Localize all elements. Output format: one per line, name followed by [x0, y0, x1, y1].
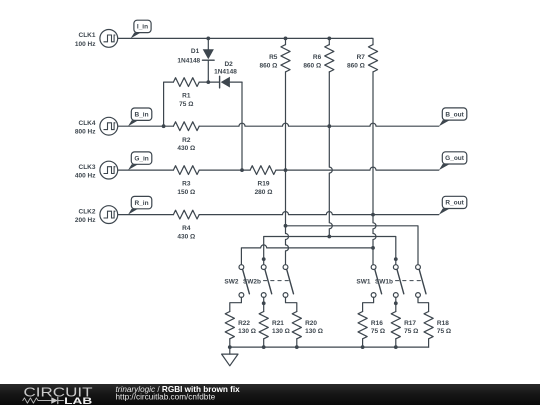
- svg-text:CLK3: CLK3: [79, 164, 96, 171]
- voltage source CLK2 (200 Hz square wave): [100, 206, 118, 224]
- resistor R20: [286, 297, 297, 311]
- svg-text:R1: R1: [182, 93, 191, 100]
- svg-text:130 Ω: 130 Ω: [272, 328, 290, 335]
- svg-text:SW2b: SW2b: [243, 279, 261, 286]
- svg-text:R20: R20: [305, 320, 317, 327]
- svg-text:75 Ω: 75 Ω: [404, 328, 418, 335]
- switch SW1 at x=373.6: [371, 265, 381, 298]
- svg-text:R19: R19: [258, 181, 270, 188]
- wire G row right segment (hop over column x=373): [276, 167, 439, 170]
- svg-text:130 Ω: 130 Ω: [238, 328, 256, 335]
- svg-text:R22: R22: [238, 320, 250, 327]
- wire loop left vertical (B_in node up): [164, 82, 174, 126]
- resistor R17: [395, 297, 397, 311]
- resistor R4 body: [173, 210, 199, 219]
- svg-text:130 Ω: 130 Ω: [305, 328, 323, 335]
- svg-text:SW2: SW2: [224, 279, 238, 286]
- svg-text:I_in: I_in: [137, 24, 148, 31]
- svg-text:400 Hz: 400 Hz: [75, 173, 96, 180]
- svg-text:75 Ω: 75 Ω: [371, 328, 385, 335]
- voltage source CLK3 (400 Hz square wave): [100, 161, 118, 179]
- svg-text:100 Hz: 100 Hz: [75, 41, 96, 48]
- svg-text:R6: R6: [313, 54, 322, 61]
- wire G row left segment: [118, 169, 174, 171]
- svg-text:G_in: G_in: [134, 155, 148, 162]
- net flag R_out: [439, 196, 467, 214]
- voltage source CLK4 (800 Hz square wave): [100, 117, 118, 135]
- wire R row left segment: [118, 214, 174, 216]
- svg-text:D2: D2: [224, 61, 233, 68]
- net flag G_in: [128, 152, 152, 170]
- switch SW1c at x=418.0: [416, 265, 426, 298]
- svg-text:R17: R17: [404, 320, 416, 327]
- svg-text:860 Ω: 860 Ω: [347, 63, 365, 70]
- wire G row mid segment: [199, 169, 250, 171]
- svg-text:430 Ω: 430 Ω: [177, 145, 195, 152]
- switch SW2b at x=263.7: [261, 265, 271, 298]
- switch SW2 at x=241.4: [239, 265, 249, 298]
- gang dashed line left: [264, 280, 290, 282]
- resistor R3 body: [173, 166, 199, 175]
- resistor R1 body: [173, 78, 199, 87]
- wire B (y=236.5) between middle switches: [264, 237, 396, 265]
- svg-text:R21: R21: [272, 320, 284, 327]
- svg-text:R5: R5: [269, 54, 278, 61]
- net flag G_out: [439, 152, 467, 170]
- svg-text:D1: D1: [191, 48, 200, 55]
- resistor R5 column (x=285.5): [285, 38, 287, 44]
- svg-text:280 Ω: 280 Ω: [255, 189, 273, 196]
- wire C (y=247.9) from left switch 1 to R7 column (hop over x=263.7): [241, 245, 373, 265]
- CircuitLab logo: [23, 385, 93, 406]
- svg-text:430 Ω: 430 Ω: [177, 233, 195, 240]
- resistor R21: [263, 297, 265, 311]
- wire node X horizontal: [199, 81, 219, 83]
- svg-text:200 Hz: 200 Hz: [75, 217, 96, 224]
- svg-text:75 Ω: 75 Ω: [437, 328, 451, 335]
- svg-text:800 Hz: 800 Hz: [75, 129, 96, 136]
- svg-text:SW1b: SW1b: [375, 279, 393, 286]
- resistor R22: [230, 297, 242, 311]
- svg-text:R3: R3: [182, 181, 191, 188]
- junction dots: [206, 37, 210, 41]
- voltage source CLK1 (100 Hz square wave): [100, 30, 118, 48]
- svg-text:R_in: R_in: [135, 200, 149, 207]
- wire A (y=225.8) from node at R5 column to right switch 3: [286, 226, 419, 265]
- wire I row (intensity net): [118, 37, 372, 39]
- resistor R18: [418, 297, 429, 311]
- svg-text:LAB: LAB: [64, 396, 93, 405]
- svg-text:CLK2: CLK2: [79, 208, 96, 215]
- svg-text:1N4148: 1N4148: [177, 57, 200, 64]
- svg-text:SW1: SW1: [356, 279, 370, 286]
- svg-text:860 Ω: 860 Ω: [260, 63, 278, 70]
- diode D2 (horizontal, cathode left): [220, 76, 242, 88]
- ground symbol: [222, 347, 238, 366]
- wire R row right segment (hops over x=285.5 and x=329.3): [199, 212, 439, 215]
- switch SW2c at x=285.5: [283, 265, 293, 298]
- switch SW1b at x=395.8: [393, 265, 403, 298]
- svg-text:75 Ω: 75 Ω: [179, 101, 193, 108]
- resistor R2 body: [173, 122, 199, 131]
- wire B row left segment: [118, 125, 174, 127]
- net flag B_in: [128, 108, 152, 126]
- wire B row right segment (hops over columns x=242, x=285.5, x=373): [199, 123, 439, 126]
- svg-text:R2: R2: [182, 137, 191, 144]
- svg-text:150 Ω: 150 Ω: [177, 189, 195, 196]
- diode D1 (vertical, cathode down): [203, 38, 215, 82]
- resistor R16: [363, 297, 374, 311]
- net flag I_in: [131, 20, 151, 38]
- svg-text:G_out: G_out: [445, 155, 465, 162]
- svg-text:http://circuitlab.com/cnfdbte: http://circuitlab.com/cnfdbte: [116, 393, 216, 402]
- svg-text:1N4148: 1N4148: [214, 69, 237, 76]
- ground rail: [230, 346, 429, 348]
- svg-text:R4: R4: [182, 225, 191, 232]
- net flag R_in: [128, 196, 152, 214]
- svg-text:CLK4: CLK4: [79, 120, 96, 127]
- svg-text:R_out: R_out: [445, 200, 464, 207]
- svg-text:R7: R7: [357, 54, 366, 61]
- svg-text:CLK1: CLK1: [79, 32, 96, 39]
- resistor R19 body: [250, 166, 276, 175]
- resistor R7 column (x=373): [372, 38, 373, 44]
- wire column x=242 (D2 output down to G row): [241, 82, 243, 170]
- svg-text:B_in: B_in: [135, 112, 149, 119]
- wire R6 bottom down to wire B (jogs over G row and wire A): [329, 72, 332, 237]
- svg-text:860 Ω: 860 Ω: [303, 63, 321, 70]
- svg-text:R16: R16: [371, 320, 383, 327]
- svg-text:B_out: B_out: [445, 111, 464, 118]
- net flag B_out: [439, 108, 467, 126]
- gang dashed line right: [396, 280, 422, 282]
- svg-text:R18: R18: [437, 320, 449, 327]
- wire R5 bottom down to G row and switch (jogs over wires B,C): [286, 72, 289, 265]
- resistor R6 column (x=329.3): [328, 38, 330, 44]
- wire R7 bottom down to R row, wire C, switch (jogs over wires A,B): [373, 72, 376, 265]
